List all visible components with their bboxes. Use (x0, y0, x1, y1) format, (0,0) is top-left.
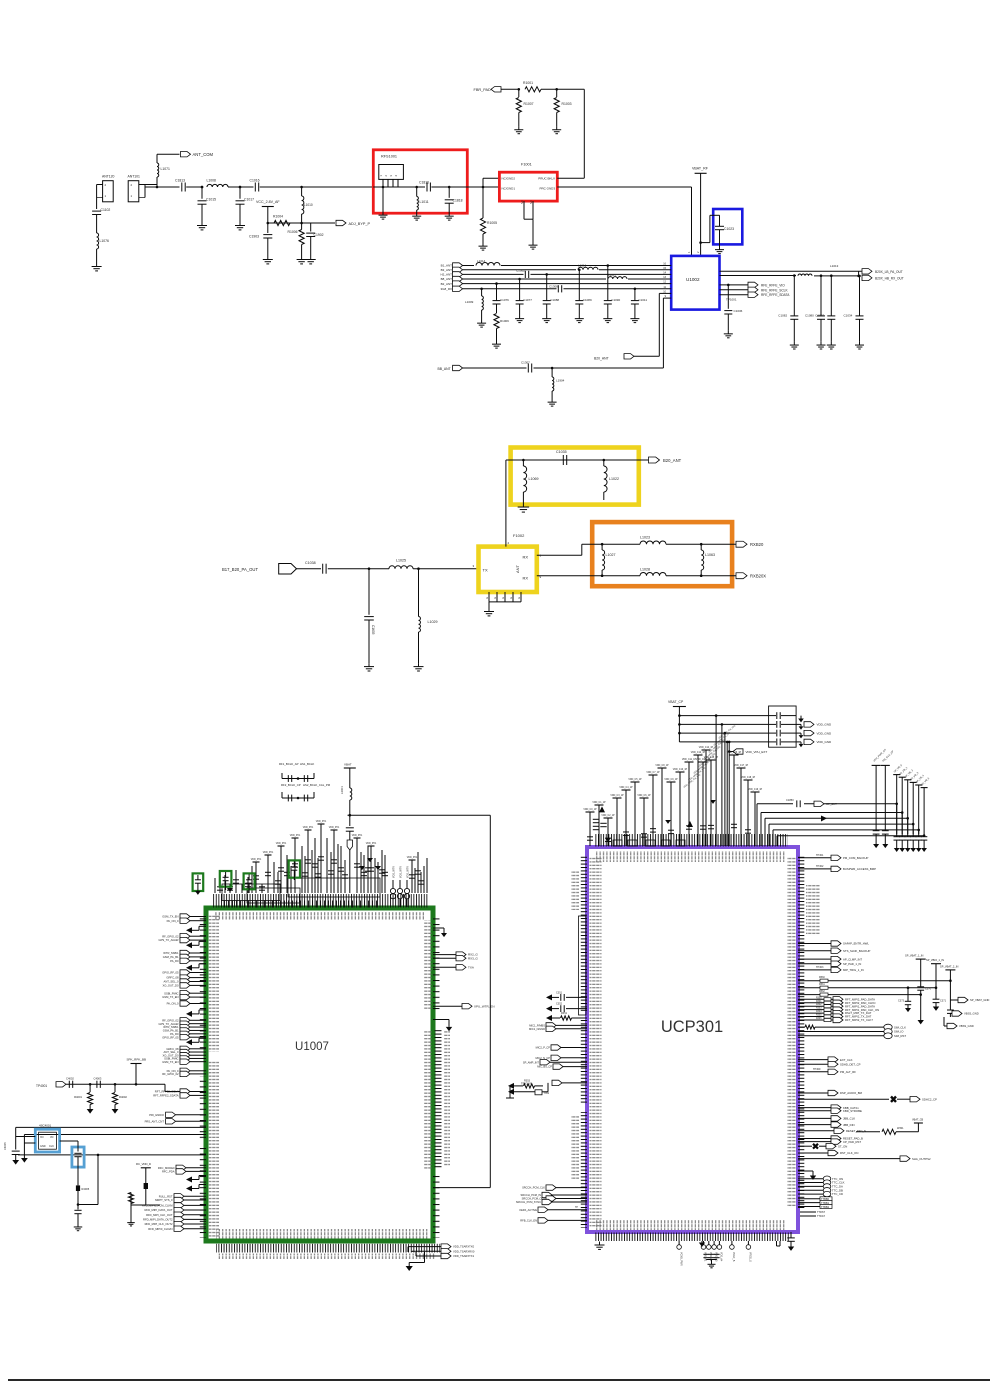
svg-text:R1005: R1005 (487, 221, 497, 225)
ground (706, 1259, 717, 1261)
port ADJ_BYP_P (336, 220, 346, 225)
svg-text:TP: TP (575, 1207, 578, 1209)
port rft_mipi2_tx_dat (798, 1016, 824, 1018)
resistor left row 3 (546, 1015, 552, 1021)
capacitor left row 2 (546, 1006, 552, 1012)
highlight box F1001 red (499, 172, 557, 201)
svg-text:T351: T351 (544, 1092, 550, 1095)
port vbss_gnd (950, 1012, 952, 1014)
svg-text:G: G (517, 597, 521, 599)
ground (239, 222, 241, 226)
port dsp_audio_bm (798, 1092, 828, 1094)
highlight box F1002 yellow (479, 547, 537, 592)
svg-text:TP302: TP302 (816, 865, 824, 868)
svg-text:L1069: L1069 (529, 477, 539, 481)
svg-text:RFT_RFFE2_SCLK: RFT_RFFE2_SCLK (155, 1090, 179, 1094)
ground (21, 1158, 28, 1163)
ground (701, 1241, 703, 1243)
port pm_alt_rf (798, 1071, 828, 1073)
highlight green box G1 (193, 873, 204, 891)
svg-text:WTR_SSBI1: WTR_SSBI1 (163, 951, 179, 955)
wire (145, 1189, 147, 1205)
highlight green box G2 (220, 871, 232, 887)
inductor L1017 (608, 277, 627, 279)
port RFE_RFFE_SDATA (748, 292, 758, 297)
svg-text:TTBB2: TTBB2 (821, 1205, 830, 1209)
wire VBAT risers to IC (715, 716, 717, 846)
port mic_bs_cp (553, 1064, 563, 1069)
resistor R1006 (299, 230, 304, 245)
pin comb UCP301 left (581, 856, 587, 1012)
svg-text:C4002: C4002 (66, 1077, 74, 1081)
svg-text:CP_EXT: CP_EXT (826, 802, 837, 806)
wire stubs below TTBB (798, 1211, 816, 1213)
capacitor decoupling (737, 767, 746, 769)
capacitor C1903 (267, 223, 269, 233)
resistor R1004 (274, 220, 290, 225)
wire (260, 186, 374, 188)
capacitor pair right of UCP301 (872, 764, 881, 766)
port wtr_ssbi2 (180, 954, 190, 959)
svg-text:C1089: C1089 (583, 298, 592, 302)
footer rule (8, 1379, 990, 1381)
port pa_on_1 (180, 1071, 190, 1076)
capacitor decoupling (649, 774, 658, 776)
node junction (267, 222, 270, 225)
ground (310, 256, 312, 260)
svg-text:GRFC_08: GRFC_08 (166, 976, 179, 980)
port vdd_tsarxtx_out2 (412, 1250, 441, 1252)
bus outline rectangles above U1007 (222, 884, 280, 901)
wire feedback stub (186, 1039, 192, 1045)
resistor R360 (805, 1025, 815, 1029)
ground (488, 608, 490, 612)
part X4001 (39, 1132, 57, 1149)
svg-text:XPU_WTR_EN: XPU_WTR_EN (474, 1004, 495, 1008)
wire (96, 185, 98, 210)
pin comb UCP301 top (594, 834, 788, 847)
ground (481, 320, 483, 323)
svg-text:SP_VBAT_GND: SP_VBAT_GND (970, 998, 989, 1002)
svg-text:W301: W301 (897, 1127, 904, 1130)
port rx3_gsm (433, 957, 456, 959)
node junction (300, 222, 303, 225)
ground (599, 1242, 601, 1246)
svg-text:MIC1_P/MBS: MIC1_P/MBS (529, 1024, 545, 1028)
port srcch_pcm_clk (546, 1185, 556, 1190)
svg-text:GSM_TX_EN: GSM_TX_EN (162, 1060, 178, 1064)
svg-text:R1009: R1009 (500, 319, 509, 323)
ground (727, 331, 729, 334)
wire stub gnd right (798, 1170, 813, 1172)
capacitor C373 (907, 988, 909, 1001)
marker arrow right (821, 816, 827, 822)
wire (96, 215, 98, 234)
wire (136, 1083, 165, 1085)
capacitor decoupling (676, 771, 685, 773)
svg-text:U1002: U1002 (686, 277, 700, 282)
resistor R1001 (525, 87, 541, 92)
node junction (239, 186, 242, 189)
svg-text:TTC_CD: TTC_CD (832, 1192, 843, 1196)
svg-text:C1033: C1033 (815, 314, 824, 318)
wire bracket box left (579, 916, 587, 1015)
svg-text:C370: C370 (925, 988, 932, 991)
ground (496, 341, 498, 344)
svg-text:VDD_C7_1P: VDD_C7_1P (646, 772, 660, 774)
pin comb U1007 left (200, 915, 206, 1052)
port sha_outps2 (798, 1158, 900, 1160)
svg-text:R4005: R4005 (82, 1187, 90, 1191)
port kbb_cat2n (798, 1107, 831, 1109)
wire (349, 831, 351, 842)
capacitor bottom caps (703, 1253, 709, 1255)
svg-text:TP309: TP309 (813, 1068, 821, 1071)
port reset_pad_n (798, 1130, 834, 1132)
svg-text:RX3_G: RX3_G (468, 956, 479, 960)
svg-text:STS_SLNK_BACKUP: STS_SLNK_BACKUP (843, 949, 870, 953)
pads below UCP301 (678, 1241, 680, 1245)
svg-text:VDD_C10_1P: VDD_C10_1P (673, 769, 688, 771)
svg-text:MIC_BS_CP: MIC_BS_CP (537, 1065, 552, 1069)
svg-text:VDD_VPH_EXT: VDD_VPH_EXT (746, 750, 768, 754)
port tx_gtr_b0 (180, 1001, 190, 1006)
node junction (156, 186, 159, 189)
ground (96, 263, 98, 267)
svg-text:VDD_C16_1P: VDD_C16_1P (727, 752, 742, 754)
svg-text:B20X_LB_PA_OUT: B20X_LB_PA_OUT (875, 270, 903, 274)
svg-text:G: G (485, 597, 489, 599)
resistor R1003 (556, 89, 558, 97)
capacitor decoupling (667, 781, 676, 783)
svg-text:4SC4001: 4SC4001 (39, 1123, 51, 1127)
wire F1002 bottom pins (488, 592, 490, 602)
svg-text:RFE_RFFE_VIO: RFE_RFFE_VIO (761, 283, 785, 287)
capacitor C1302 (524, 271, 526, 278)
port mrpt_sts_0 (174, 1197, 184, 1202)
svg-text:C1023: C1023 (724, 227, 734, 231)
svg-text:C4003: C4003 (94, 1077, 102, 1081)
svg-text:ADJ_BYP_P: ADJ_BYP_P (349, 222, 371, 226)
svg-text:GND: GND (40, 1145, 46, 1148)
svg-text:SP_VBAT_2_IN: SP_VBAT_2_IN (940, 964, 959, 968)
svg-text:C1902: C1902 (314, 233, 324, 237)
ground (12, 1160, 19, 1165)
capacitor C1818 (448, 187, 450, 198)
inductor L1016 (578, 267, 598, 270)
inductor L1008 (207, 184, 228, 187)
pin labels UCP301 right inside (787, 856, 796, 1208)
port rft_rffe2_sdata (180, 1093, 190, 1098)
capacitor doubles left (593, 818, 599, 820)
wire (413, 568, 479, 570)
wire (482, 178, 484, 187)
svg-text:VCXO_PWR: VCXO_PWR (679, 1252, 682, 1266)
port ap_clmp_int (798, 958, 831, 960)
wire (297, 568, 322, 570)
svg-text:KEPA_ACTIVE: KEPA_ACTIVE (519, 1208, 537, 1212)
wire 3-line bus right (798, 980, 820, 982)
wire (506, 459, 649, 461)
svg-text:VDD_TSARXTX0: VDD_TSARXTX0 (453, 1245, 475, 1249)
wire (501, 88, 519, 90)
svg-text:GSM_TX_EN: GSM_TX_EN (162, 915, 178, 919)
capacitor C1036 (727, 284, 730, 287)
svg-text:RFD_MIPI_DATA_OUT2: RFD_MIPI_DATA_OUT2 (143, 1217, 173, 1221)
wire RFFE lines (720, 284, 749, 286)
svg-text:VDD_GND: VDD_GND (817, 731, 833, 735)
port B20X_LB_PA_OUT (862, 269, 872, 274)
svg-text:C1076: C1076 (500, 298, 509, 302)
svg-text:JBB_CLK: JBB_CLK (843, 1117, 855, 1121)
svg-text:VDD_PX1: VDD_PX1 (407, 857, 418, 859)
capacitor C4007 (74, 1209, 81, 1211)
port RFE_RFFE_SCLK (748, 287, 758, 292)
svg-text:VDD_WTR: VDD_WTR (407, 866, 410, 878)
svg-text:GSM_TX_EN: GSM_TX_EN (162, 995, 178, 999)
ground (301, 256, 303, 260)
node junction (201, 186, 204, 189)
svg-text:RESET_PAD_N: RESET_PAD_N (846, 1129, 866, 1133)
port safap_entr_hwl (798, 943, 831, 945)
wire (534, 367, 664, 369)
svg-text:ANT101: ANT101 (128, 175, 141, 179)
wire (130, 1205, 132, 1220)
svg-text:R353: R353 (524, 1080, 531, 1083)
svg-text:R4001: R4001 (74, 1095, 82, 1099)
svg-text:GPS_TX_AGGR: GPS_TX_AGGR (158, 938, 178, 942)
port rft_mipi2_pad_clkn (798, 1002, 824, 1004)
svg-text:L1063: L1063 (705, 553, 715, 557)
svg-text:R300: R300 (816, 997, 822, 999)
svg-text:VDD_C2_1P: VDD_C2_1P (601, 815, 615, 817)
svg-text:SP_PAD_1_IN: SP_PAD_1_IN (843, 962, 861, 966)
svg-text:B20_ANT: B20_ANT (663, 458, 682, 463)
svg-text:VD: VD (50, 1136, 54, 1139)
wire (710, 214, 720, 216)
wire stub (433, 927, 444, 929)
svg-text:RF_GPIO_02: RF_GPIO_02 (162, 934, 179, 938)
svg-text:SRCCH_PCM_IN: SRCCH_PCM_IN (521, 1193, 542, 1197)
port rfc_pda (176, 1169, 186, 1174)
capacitor C1605 shunt (368, 569, 370, 615)
port rull_rst (174, 1194, 184, 1199)
svg-text:G: G (493, 597, 497, 599)
wire pins (382, 179, 384, 187)
node junction (415, 186, 418, 189)
svg-text:R1003: R1003 (562, 102, 572, 106)
capacitor C1813 (181, 183, 183, 192)
svg-text:C1080: C1080 (805, 314, 814, 318)
svg-text:C351: C351 (556, 992, 563, 995)
port ttc_da (798, 1185, 823, 1187)
capacitor C1033 (830, 274, 833, 277)
wire (157, 153, 180, 155)
port pa_r1 (180, 1035, 190, 1040)
capacitor C1034 (858, 275, 861, 278)
pin labels UCP301 right outside (806, 884, 820, 936)
svg-text:C1088: C1088 (550, 298, 559, 302)
svg-text:C1903: C1903 (249, 235, 259, 239)
ground (368, 663, 370, 667)
svg-text:VBSS_GND: VBSS_GND (959, 1024, 974, 1028)
op-amp U1002 box blue (671, 256, 719, 310)
capacitor in G2 (225, 872, 227, 877)
capacitor C370 (917, 986, 924, 988)
connector ANT120 (103, 181, 114, 202)
capacitor C1015 (201, 187, 203, 199)
svg-text:VDD_C1_1P: VDD_C1_1P (592, 802, 606, 804)
wire (349, 800, 351, 815)
svg-text:PA_R0: PA_R0 (170, 959, 179, 963)
wire (666, 543, 736, 545)
svg-text:VDD_C6_1P: VDD_C6_1P (637, 795, 651, 797)
svg-text:FBR_PAD: FBR_PAD (474, 88, 491, 92)
svg-text:ANT: ANT (515, 564, 520, 573)
svg-text:SP_VBAT_1_IN: SP_VBAT_1_IN (905, 954, 924, 958)
svg-text:VDD_PX1: VDD_PX1 (366, 843, 377, 845)
pin comb U1007 right inner dense (435, 1030, 442, 1169)
port tx_gtr_b0 (180, 918, 190, 923)
svg-text:SSBI_PMIC: SSBI_PMIC (164, 991, 178, 995)
port ant_sel_1 (180, 983, 190, 988)
ground (416, 213, 418, 216)
wire (382, 187, 384, 212)
wire BB riser (662, 298, 664, 368)
capacitor C1902 (310, 223, 312, 232)
port sim_clk (798, 1026, 805, 1028)
ground (607, 316, 609, 319)
svg-text:C1090: C1090 (611, 298, 620, 302)
port rfd_mipi_clk_out2 (174, 1221, 184, 1226)
port vdd_gnd (796, 741, 801, 743)
port srcch_pcm_in (542, 1192, 552, 1197)
capacitor C1307 (527, 364, 529, 373)
port pm_com_backup (798, 857, 831, 859)
svg-text:VDD_A3: VDD_A3 (714, 1252, 717, 1262)
svg-text:L1014: L1014 (477, 259, 486, 263)
port ANT_COM (181, 152, 191, 157)
port mic1_n (546, 1026, 556, 1031)
highlight green box G4 (289, 860, 300, 877)
svg-text:RFD_MIPI_CLK_OUT2: RFD_MIPI_CLK_OUT2 (145, 1222, 173, 1226)
svg-text:VBSS_GND: VBSS_GND (964, 1012, 979, 1016)
svg-text:C1302: C1302 (516, 269, 525, 273)
highlight box RX match orange (592, 522, 732, 586)
svg-text:SDHC2_CP: SDHC2_CP (922, 1097, 937, 1101)
svg-text:TP301: TP301 (816, 854, 824, 857)
capacitor C1102 (92, 210, 101, 212)
connector ANT101 (128, 181, 139, 202)
wire feedback stub (186, 1011, 192, 1017)
capacitor decoupling (586, 811, 595, 813)
port grfc_07 (180, 1046, 190, 1051)
port intr_n (180, 1056, 190, 1061)
svg-text:NC: NC (520, 200, 524, 204)
svg-text:PA_ON_0: PA_ON_0 (167, 919, 179, 923)
wire (634, 355, 659, 357)
port vdd_gnd (796, 723, 801, 725)
svg-text:NC/GND2: NC/GND2 (502, 177, 516, 181)
svg-text:VDD_A4: VDD_A4 (720, 1252, 723, 1262)
pin labels UCP301 left outside (571, 870, 579, 910)
ground (905, 1008, 911, 1012)
wire XO lines (16, 1126, 206, 1128)
svg-text:3G8_RX: 3G8_RX (440, 287, 452, 291)
resistor R4006 block (144, 1183, 148, 1189)
svg-text:SP_VBIO_1_IN: SP_VBIO_1_IN (926, 958, 944, 962)
port rst_clk_on (798, 1152, 828, 1154)
wire (96, 249, 98, 263)
svg-text:L1028: L1028 (640, 568, 650, 572)
capacitor decoupling (707, 759, 716, 761)
oscillator X4001 highlight light-blue (35, 1129, 59, 1152)
port sim_io (798, 1031, 884, 1033)
wire stub gnd (433, 1019, 449, 1021)
svg-text:L1904: L1904 (556, 379, 565, 383)
svg-text:RFD_MIPI0_PCM_CLKM: RFD_MIPI0_PCM_CLKM (142, 1204, 173, 1208)
ground (519, 316, 521, 319)
node junction (300, 186, 303, 189)
svg-text:RF1_BCLK_AP: RF1_BCLK_AP (279, 762, 299, 766)
svg-text:L1016: L1016 (578, 264, 587, 268)
svg-text:VBAT: VBAT (344, 763, 352, 767)
pin labels U1007 bottom outside (218, 1254, 436, 1260)
pin labels U1007 left inside (209, 915, 219, 1052)
port wtr_ssbi2 (180, 1028, 190, 1033)
svg-text:R302: R302 (816, 1004, 822, 1006)
svg-text:PRUC BKLV: PRUC BKLV (538, 177, 555, 181)
port tx_gtr_b0 (180, 1068, 190, 1073)
port reset_pad_b (798, 1138, 831, 1140)
svg-text:RFT_MIPI2_TX_CLK7: RFT_MIPI2_TX_CLK7 (845, 1018, 873, 1022)
capacitor decoupling (751, 791, 760, 793)
inductor L1071 (156, 154, 158, 163)
svg-text:VDD_C9_1P: VDD_C9_1P (664, 779, 678, 781)
svg-text:C1850: C1850 (786, 798, 794, 802)
capacitor decoupling (622, 789, 631, 791)
wire (139, 184, 157, 186)
svg-text:NC: NC (529, 200, 533, 204)
svg-text:C1035: C1035 (556, 450, 567, 454)
svg-text:VDD_PX1: VDD_PX1 (276, 843, 287, 845)
port sdhc2_cp (798, 1098, 889, 1100)
ground (859, 342, 861, 345)
capacitor C1016 (254, 183, 256, 192)
svg-text:VBAT_CB: VBAT_CB (912, 1119, 924, 1122)
capacitor decoupling (699, 761, 708, 763)
svg-text:C352: C352 (556, 1003, 563, 1006)
inductor L1010 (301, 187, 303, 196)
wire (328, 568, 389, 570)
svg-text:R351: R351 (561, 1012, 568, 1015)
capacitor C4006 (77, 1141, 79, 1152)
svg-text:XO: XO (40, 1136, 44, 1139)
capacitor C372 (947, 1009, 954, 1011)
port intr_n (180, 991, 190, 996)
svg-text:MIP_TRIG_1_IN: MIP_TRIG_1_IN (843, 968, 864, 972)
inductor L1022 shunt (603, 459, 606, 462)
wire power bundle right (756, 804, 758, 846)
wire F1002 ANT riser (505, 460, 507, 547)
resistor R1009 (496, 304, 498, 313)
svg-text:L1029: L1029 (428, 620, 438, 624)
svg-text:VDD_GND: VDD_GND (817, 723, 833, 727)
svg-text:C1102: C1102 (101, 208, 111, 212)
svg-text:VDD_PX1: VDD_PX1 (251, 859, 262, 861)
port rslt_mipi_tx_dat (798, 1012, 824, 1014)
svg-text:R1007: R1007 (524, 102, 534, 106)
